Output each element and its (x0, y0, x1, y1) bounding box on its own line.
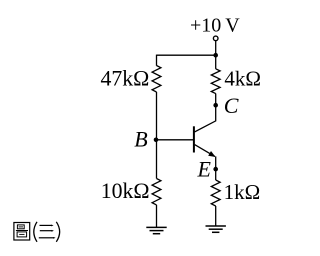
caption glyph 圖 outer box (14, 223, 30, 241)
caption glyph 三 middle stroke (40, 230, 53, 232)
transistor Q1 emitter lead (195, 145, 215, 157)
wire left rail to ground (156, 205, 158, 228)
resistor R1 47kΩ (152, 66, 161, 93)
supply terminal circle (213, 36, 218, 41)
caption glyph 圖 inner top tick (19, 226, 23, 228)
svg-text:4kΩ: 4kΩ (224, 67, 261, 91)
svg-text:10kΩ: 10kΩ (101, 179, 150, 203)
wire base (156, 139, 194, 141)
wire right rail to ground (215, 206, 217, 226)
resistor R4 1kΩ (211, 180, 220, 206)
node B dot (154, 138, 159, 143)
wire right rail above 4k (215, 55, 217, 69)
node E dot (213, 167, 218, 172)
caption glyph 圖 middle bar (16, 230, 28, 232)
svg-text:B: B (134, 126, 147, 151)
wire emitter vertical (215, 156, 217, 180)
caption glyph 圖 bottom inner tick (19, 233, 24, 235)
resistor R2 4kΩ (211, 69, 220, 94)
figure caption 圖(三) (14, 222, 60, 242)
transistor Q1 emitter arrowhead (208, 151, 215, 157)
caption glyph 圖 inner top square (17, 225, 24, 229)
wire top horizontal (157, 54, 216, 56)
caption left parenthesis (34, 222, 37, 242)
svg-text:1kΩ: 1kΩ (224, 180, 261, 204)
wire left rail upper (156, 55, 158, 66)
junction dot top (213, 53, 218, 58)
transistor Q1 base bar (193, 126, 195, 152)
ground left (146, 227, 166, 233)
resistor R3 10kΩ (152, 179, 161, 205)
svg-text:C: C (224, 93, 239, 118)
svg-text:47kΩ: 47kΩ (100, 67, 149, 91)
ground right (206, 226, 226, 232)
caption glyph 三 bottom stroke (39, 237, 54, 239)
caption glyph 三 top stroke (40, 224, 53, 226)
wire left rail middle (156, 92, 158, 179)
caption right parenthesis (56, 222, 59, 242)
svg-text:+10 V: +10 V (190, 15, 240, 37)
wire terminal to junction (215, 41, 217, 55)
caption glyph 圖 inner bottom box (17, 232, 27, 237)
svg-text:E: E (197, 157, 212, 182)
node C dot (213, 103, 218, 108)
transistor Q1 collector lead (195, 94, 216, 132)
